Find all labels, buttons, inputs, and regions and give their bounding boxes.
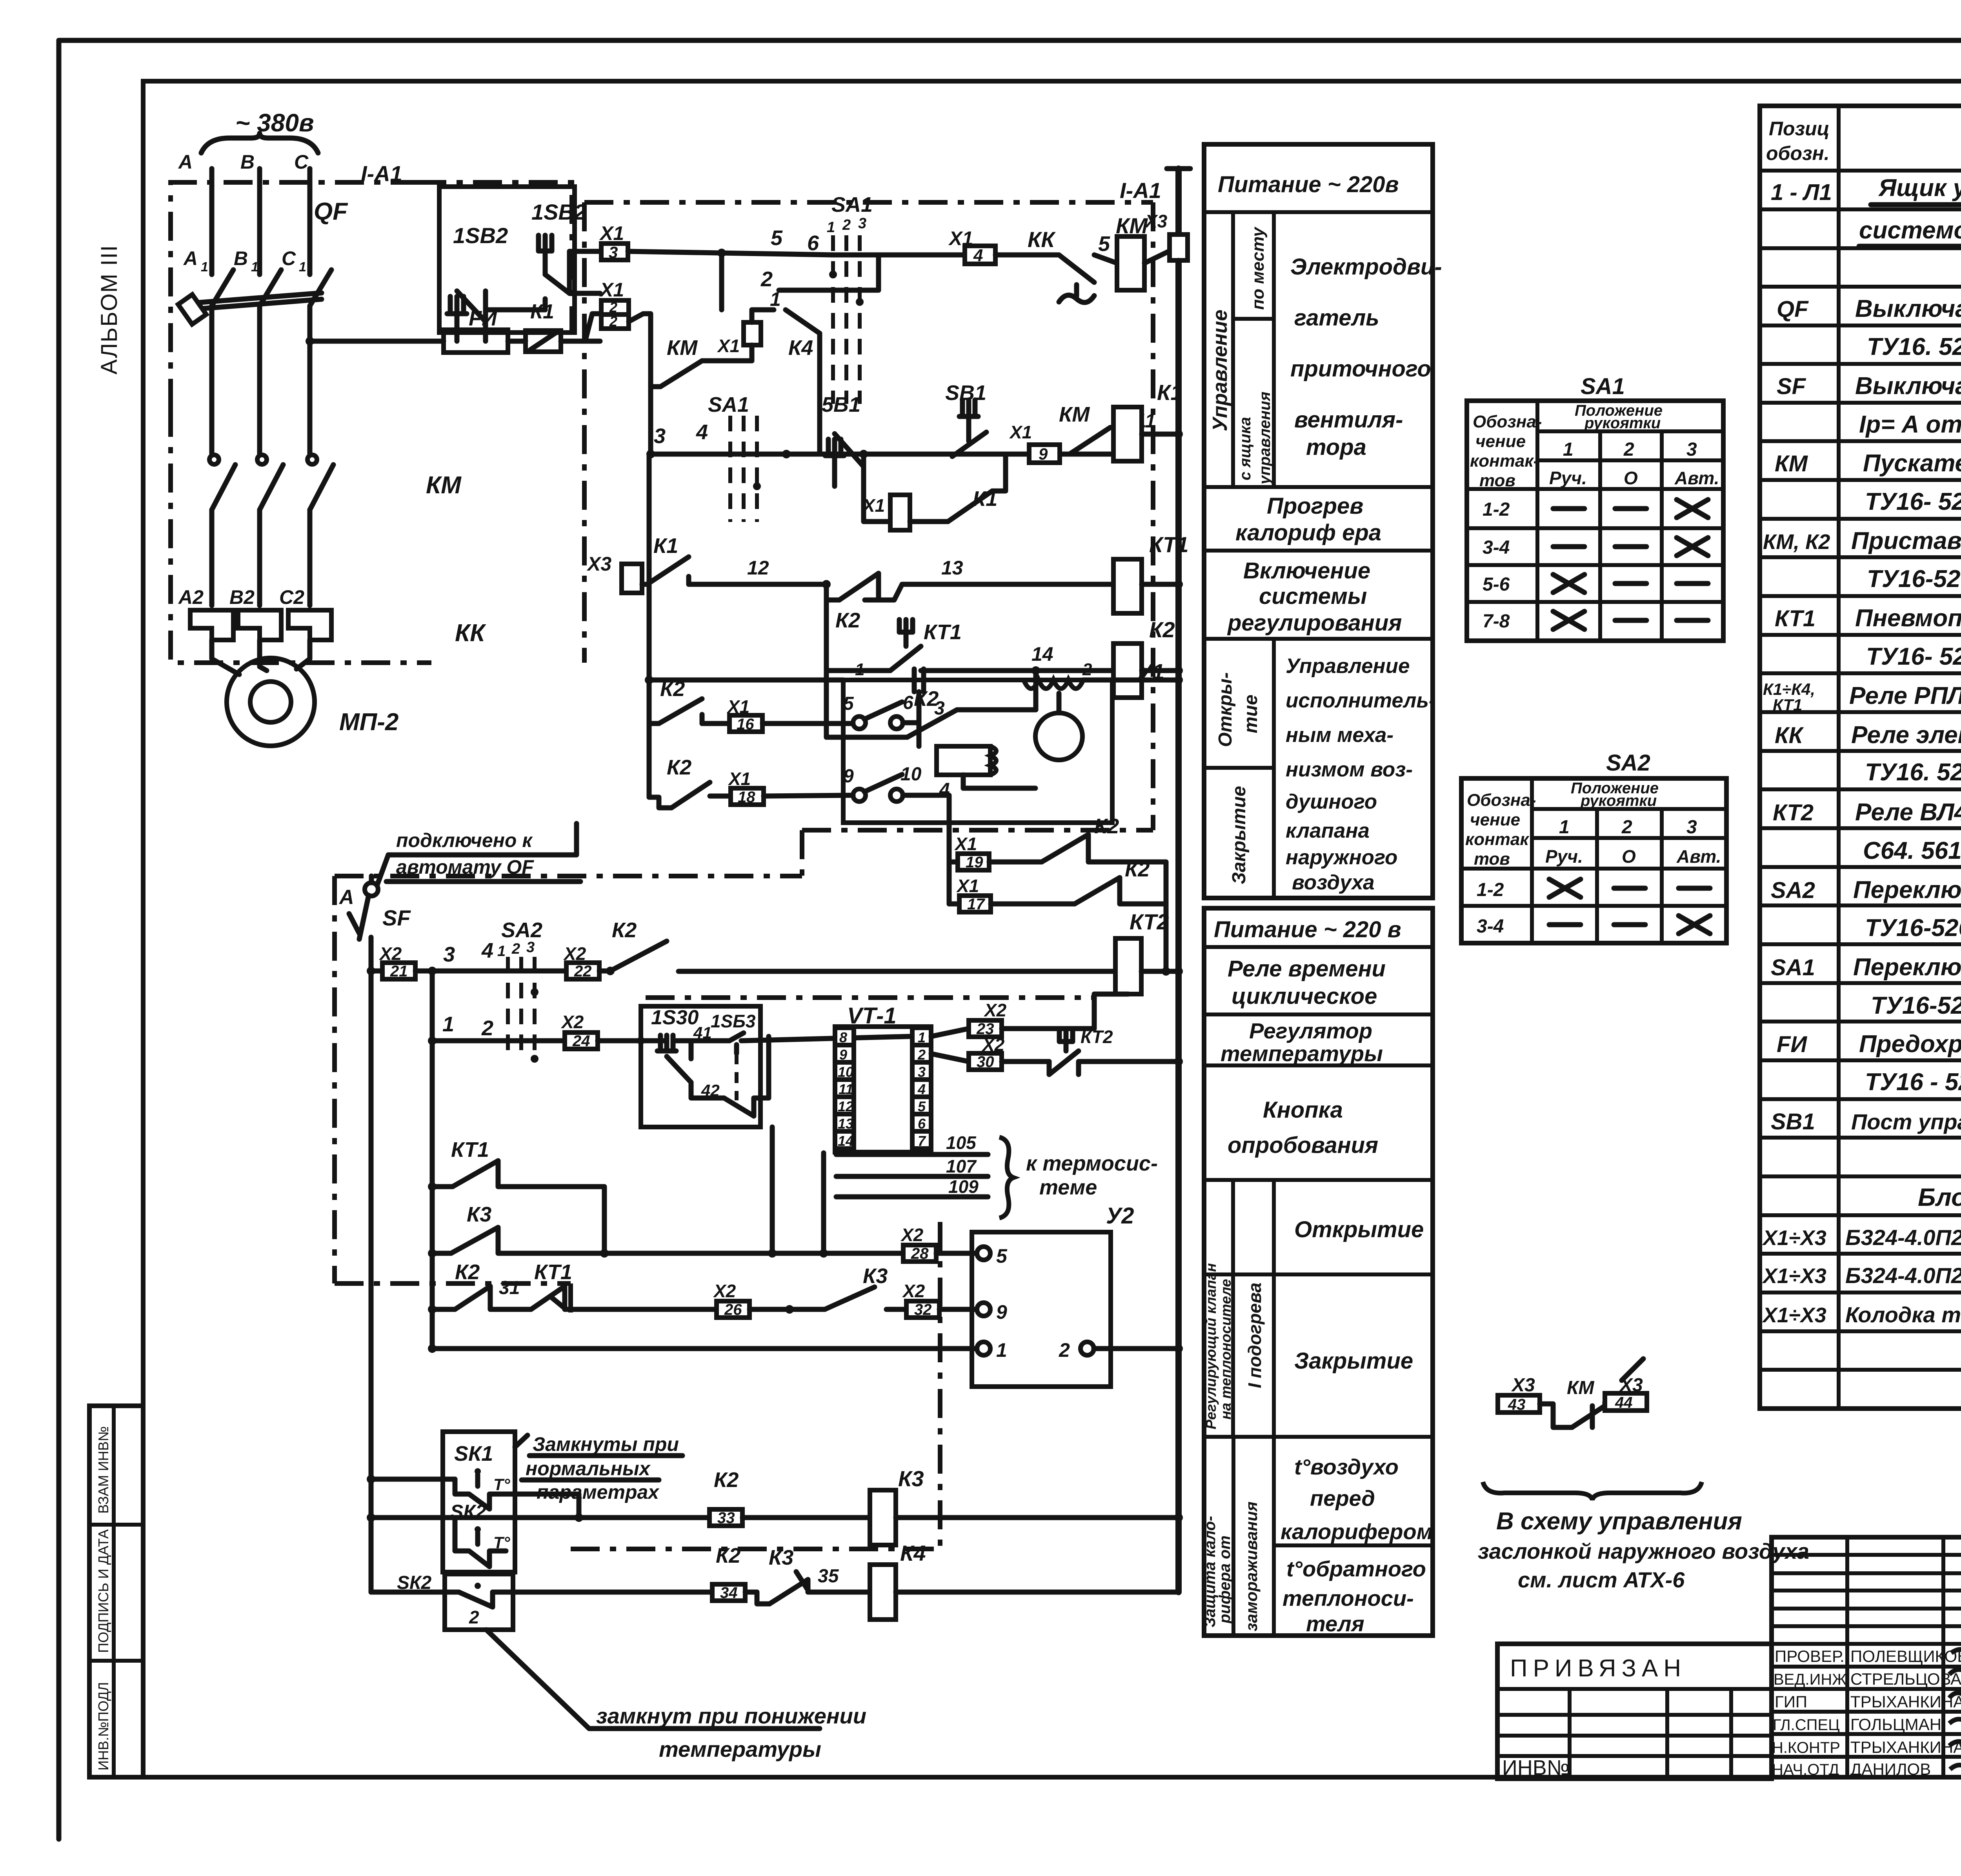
node B2 (229, 586, 255, 608)
note closed at normal (515, 1433, 682, 1503)
svg-text:КМ: КМ (667, 336, 698, 360)
contact KT1 aux rung (428, 1138, 604, 1253)
svg-text:нормальных: нормальных (526, 1458, 651, 1480)
svg-text:9: 9 (843, 766, 854, 787)
terminal X2:22 (563, 943, 615, 980)
node A1 (183, 247, 208, 274)
svg-text:Х1÷Х3: Х1÷Х3 (1762, 1264, 1826, 1288)
svg-text:циклическое: циклическое (1232, 983, 1377, 1009)
svg-text:ТУ16 - 522.112 - 74: ТУ16 - 522.112 - 74 (1865, 1069, 1961, 1096)
svg-text:14: 14 (838, 1133, 853, 1149)
svg-text:НАЧ.ОТД: НАЧ.ОТД (1772, 1761, 1839, 1778)
gearbox inside Y1 (919, 692, 1035, 788)
svg-text:теплоноси-: теплоноси- (1282, 1586, 1414, 1611)
svg-text:вентиля-: вентиля- (1294, 407, 1403, 433)
button 1SB2 stop (447, 223, 508, 341)
svg-text:А2: А2 (178, 586, 204, 608)
svg-text:С64. 561. 062ТО: С64. 561. 062ТО (1863, 837, 1961, 864)
switch SA1 contact 1-2 (760, 193, 965, 404)
svg-text:Х2: Х2 (560, 1012, 584, 1032)
svg-text:Б324-4.0П25-В/В УЗ-5 ТУ16- 5: Б324-4.0П25-В/В УЗ-5 ТУ16- 526. 462-79 (1845, 1225, 1961, 1250)
svg-text:КМ: КМ (1775, 451, 1808, 476)
node B phase label (240, 151, 255, 173)
svg-text:SА1: SА1 (1771, 955, 1815, 980)
timer coil KT1 (1113, 532, 1188, 613)
svg-text:КТ2: КТ2 (1130, 909, 1169, 934)
svg-text:Х1: Х1 (956, 876, 979, 896)
svg-text:4: 4 (696, 420, 708, 444)
svg-text:26: 26 (724, 1301, 742, 1318)
svg-text:SА2: SА2 (501, 918, 542, 942)
svg-text:22: 22 (574, 963, 592, 980)
svg-text:3: 3 (934, 698, 945, 719)
svg-text:Прогрев: Прогрев (1267, 493, 1363, 519)
svg-text:Х1: Х1 (954, 834, 977, 854)
wire Y1 supply top (645, 454, 843, 797)
svg-text:32: 32 (914, 1301, 932, 1318)
svg-text:28: 28 (911, 1245, 929, 1262)
svg-text:Управление: Управление (1286, 654, 1410, 678)
svg-text:К2: К2 (1125, 858, 1150, 881)
contact K2 34 K3 35 rung (712, 1544, 870, 1604)
net ~380v label (201, 109, 318, 153)
contact K2 33 heat rung (371, 1468, 870, 1527)
svg-text:гатель: гатель (1294, 305, 1379, 331)
node C2 (279, 586, 304, 608)
svg-text:ТУ16-526.437-78: ТУ16-526.437-78 (1867, 565, 1961, 593)
wire phase A drop (209, 169, 215, 274)
svg-text:1: 1 (827, 219, 835, 236)
svg-text:33: 33 (717, 1509, 735, 1527)
svg-text:ДАНИЛОВ: ДАНИЛОВ (1850, 1760, 1931, 1778)
svg-text:КТ1: КТ1 (924, 620, 962, 644)
svg-text:1: 1 (442, 1013, 454, 1036)
wire bypass via X1:6 K4 (629, 253, 820, 454)
svg-text:12: 12 (747, 557, 769, 579)
svg-text:на теплоносителе: на теплоносителе (1218, 1279, 1234, 1420)
svg-text:Х1: Х1 (862, 495, 885, 516)
svg-text:КТ1: КТ1 (451, 1138, 489, 1162)
supply bus right (1167, 169, 1190, 1349)
svg-text:К4: К4 (788, 336, 813, 360)
svg-text:2: 2 (1059, 1339, 1070, 1361)
local box 1S30 (641, 1006, 760, 1127)
svg-text:душного: душного (1286, 790, 1377, 813)
reference box PRIVYAZAN (1497, 1644, 1772, 1780)
wire rung 1-2 test (428, 971, 565, 1349)
wires thermo outputs 105 107 109 (836, 1133, 1158, 1218)
svg-text:Питание ~ 220 в: Питание ~ 220 в (1214, 917, 1401, 942)
svg-text:замораживания: замораживания (1242, 1502, 1261, 1631)
connector VT-1 (835, 1003, 931, 1152)
svg-text:К2: К2 (667, 756, 691, 779)
svg-text:исполнитель-: исполнитель- (1286, 689, 1436, 712)
wire phases lower (212, 510, 310, 605)
svg-text:К3: К3 (898, 1466, 924, 1491)
svg-text:Х1÷Х3: Х1÷Х3 (1762, 1303, 1826, 1327)
svg-text:1 - Л1: 1 - Л1 (1771, 180, 1832, 205)
svg-text:6: 6 (807, 231, 819, 255)
svg-text:1: 1 (497, 943, 506, 960)
svg-text:SА2: SА2 (1606, 750, 1650, 776)
svg-text:Замкнуты при: Замкнуты при (533, 1433, 679, 1455)
svg-text:7: 7 (918, 1133, 926, 1149)
svg-text:21: 21 (390, 963, 408, 980)
svg-text:К3: К3 (467, 1203, 491, 1226)
svg-text:109: 109 (948, 1176, 979, 1197)
svg-text:КМ, К2: КМ, К2 (1763, 530, 1830, 554)
contactor coil KM (1116, 213, 1170, 290)
svg-text:Переключатель ПКУЗ-12С-УЗ Схем: Переключатель ПКУЗ-12С-УЗ Схема 2001 (1853, 954, 1961, 981)
svg-text:КМ: КМ (1567, 1378, 1595, 1398)
svg-text:Кнопка: Кнопка (1263, 1097, 1343, 1123)
svg-text:В схему управления: В схему управления (1496, 1508, 1742, 1535)
svg-text:с ящика: с ящика (1237, 417, 1254, 480)
contact Y1 5-6 (843, 693, 945, 746)
svg-text:калорифером: калорифером (1281, 1519, 1433, 1544)
svg-text:ТУ16- 526- 437-78: ТУ16- 526- 437-78 (1865, 488, 1961, 515)
svg-text:1: 1 (251, 260, 258, 274)
svg-text:А: А (338, 886, 354, 909)
contact K2 timer feed (610, 918, 1115, 971)
svg-text:1: 1 (299, 260, 306, 274)
svg-text:перед: перед (1310, 1486, 1375, 1511)
svg-text:ВЕД.ИНЖ: ВЕД.ИНЖ (1774, 1671, 1846, 1688)
svg-text:приточного: приточного (1290, 356, 1431, 382)
node B1 (234, 247, 258, 274)
svg-text:3: 3 (443, 943, 455, 966)
svg-text:К3: К3 (863, 1264, 888, 1288)
terminal X2:21 (371, 939, 508, 980)
svg-text:ТРЫХАНКИНА: ТРЫХАНКИНА (1850, 1738, 1961, 1756)
svg-text:КТ1: КТ1 (534, 1260, 572, 1284)
svg-text:Включение: Включение (1243, 558, 1370, 584)
svg-text:Реле ВЛ40-ТУ4 ~220в вв 10÷: Реле ВЛ40-ТУ4 ~220в вв 10÷100с (1855, 799, 1961, 826)
svg-text:SА1: SА1 (708, 393, 749, 416)
terminal X2:23 (931, 994, 1128, 1038)
svg-text:t°обратного: t°обратного (1286, 1556, 1426, 1581)
svg-text:5В1: 5В1 (822, 393, 860, 416)
svg-text:1SВ2: 1SВ2 (531, 200, 586, 224)
svg-text:35: 35 (818, 1566, 839, 1587)
svg-text:низмом воз-: низмом воз- (1286, 758, 1413, 781)
svg-text:системой П-1 (ЯОН5101-2277УХЛ4: системой П-1 (ЯОН5101-2277УХЛ4) (1859, 217, 1961, 244)
svg-text:тие: тие (1241, 694, 1261, 733)
svg-text:ПРОВЕР.: ПРОВЕР. (1775, 1647, 1845, 1665)
svg-text:С2: С2 (279, 586, 304, 608)
terminal X2:32 (902, 1281, 977, 1318)
svg-text:тора: тора (1306, 434, 1366, 460)
contact K3 aux rung open (428, 1127, 903, 1258)
button 5B1 stop (782, 393, 868, 486)
wire limit rung X1:17 (949, 858, 1170, 976)
svg-text:С: С (294, 151, 309, 173)
svg-text:В: В (240, 151, 255, 173)
svg-text:24: 24 (572, 1033, 590, 1050)
timer coil KT2 (1115, 909, 1183, 994)
svg-text:6: 6 (903, 693, 913, 713)
svg-text:опробования: опробования (1228, 1133, 1378, 1158)
svg-text:ПОЛЕВЩИКОВ: ПОЛЕВЩИКОВ (1850, 1647, 1961, 1665)
svg-text:управления: управления (1256, 392, 1273, 485)
svg-text:Авт.: Авт. (1676, 846, 1721, 867)
capacitor C inside Y1 (914, 669, 924, 692)
svg-text:2: 2 (760, 267, 773, 291)
svg-text:ПРИВЯЗАН: ПРИВЯЗАН (1510, 1655, 1686, 1682)
svg-text:SА1: SА1 (1581, 374, 1625, 399)
svg-text:3-4: 3-4 (1477, 916, 1504, 937)
svg-text:Предохранитель ПРС- 6УЗ-П Iпл.: Предохранитель ПРС- 6УЗ-П Iпл.вст. 4А (1859, 1031, 1961, 1058)
svg-text:КМ: КМ (426, 472, 462, 499)
svg-text:14: 14 (1031, 643, 1053, 665)
svg-text:2: 2 (481, 1016, 493, 1040)
svg-text:Х1: Х1 (717, 336, 740, 356)
svg-text:по месту: по месту (1248, 226, 1268, 310)
wire bus SF lower (367, 967, 375, 1592)
contact K2 selfhold (826, 671, 1036, 737)
terminal X3:4 (1144, 211, 1188, 274)
svg-text:I-А1: I-А1 (361, 161, 402, 186)
svg-text:19: 19 (966, 854, 983, 871)
svg-text:С: С (282, 247, 296, 269)
svg-text:Откры-: Откры- (1215, 672, 1236, 747)
svg-text:Реле времени: Реле времени (1228, 956, 1386, 982)
svg-text:SК1: SК1 (454, 1442, 493, 1465)
node I-A1 label (361, 161, 402, 186)
svg-text:Пускатель ПМЛ210004 ~220в: Пускатель ПМЛ210004 ~220в (1863, 450, 1961, 477)
svg-text:ПОДПИСЬ И ДАТА: ПОДПИСЬ И ДАТА (95, 1529, 111, 1653)
svg-text:QF: QF (1777, 296, 1809, 322)
dashdot boundary lower left (335, 876, 1094, 1549)
svg-text:К2: К2 (835, 609, 860, 632)
svg-text:Управление: Управление (1209, 310, 1232, 431)
wire rung D regulator (826, 584, 1113, 675)
switch SA1 contact 3-4 (708, 393, 761, 522)
svg-text:Руч.: Руч. (1545, 846, 1583, 867)
svg-text:КТ1: КТ1 (1773, 696, 1802, 714)
svg-text:чение: чение (1470, 810, 1520, 829)
wire phase C drop (307, 169, 313, 274)
svg-text:КК: КК (1775, 723, 1804, 748)
svg-text:2: 2 (469, 1607, 479, 1627)
svg-text:4: 4 (481, 939, 493, 962)
svg-text:9: 9 (1039, 445, 1048, 463)
local control box 1SB2 (439, 187, 575, 333)
svg-text:КК: КК (455, 620, 486, 647)
svg-text:Питание ~ 220в: Питание ~ 220в (1218, 172, 1399, 197)
actuator box Y1 (843, 659, 1164, 823)
svg-text:5-6: 5-6 (1483, 574, 1510, 595)
svg-text:рукоятки: рукоятки (1580, 792, 1657, 809)
svg-text:SF: SF (382, 905, 411, 930)
svg-text:1: 1 (996, 1339, 1007, 1361)
svg-text:1-2: 1-2 (1483, 499, 1510, 520)
relay coil K3 (870, 1349, 1183, 1592)
svg-text:ТУ16-526.047.74: ТУ16-526.047.74 (1871, 992, 1961, 1019)
svg-text:У2: У2 (1106, 1203, 1134, 1229)
svg-text:1: 1 (855, 660, 864, 679)
sensor box SK2 low temp (371, 1572, 712, 1630)
svg-text:2: 2 (609, 313, 617, 329)
wire rung C heater (586, 534, 1113, 632)
svg-text:Открытие: Открытие (1294, 1217, 1424, 1242)
svg-text:1-2: 1-2 (1477, 880, 1504, 900)
svg-text:КТ2: КТ2 (1081, 1027, 1113, 1047)
wire rung close K2 31 KT1 (428, 1260, 717, 1314)
switch SA2 contact 1-2 (497, 918, 566, 1063)
svg-text:1SБ3: 1SБ3 (711, 1011, 756, 1031)
node C phase label (294, 151, 309, 173)
svg-text:5: 5 (1098, 232, 1110, 256)
thermal relay KK heaters (190, 610, 486, 647)
switch SF (338, 876, 411, 971)
svg-text:ИНВ№: ИНВ№ (1502, 1756, 1570, 1780)
svg-text:автомату QF: автомату QF (396, 856, 534, 878)
svg-text:СТРЕЛЬЦОВА: СТРЕЛЬЦОВА (1850, 1670, 1961, 1688)
wire phase B drop (257, 169, 262, 274)
svg-text:43: 43 (1508, 1396, 1526, 1413)
svg-text:параметрах: параметрах (537, 1481, 660, 1503)
svg-text:Б324-4.0П25-В/ВУЗ-10 ТУ16 -526: Б324-4.0П25-В/ВУЗ-10 ТУ16 -526. 463 -79 (1845, 1263, 1961, 1288)
svg-text:Х1: Х1 (599, 222, 624, 244)
wire rung A from X1:3 (628, 226, 833, 257)
terminal X2:30 contact KT2 (931, 1027, 1183, 1074)
svg-text:Х3: Х3 (1511, 1375, 1535, 1396)
svg-text:Т°: Т° (493, 1533, 511, 1552)
svg-text:замкнут при понижении: замкнут при понижении (596, 1703, 866, 1728)
note closed at low temp (486, 1630, 866, 1761)
svg-text:МП-2: МП-2 (339, 709, 398, 736)
svg-text:Выключатель А63-МУЗ ~380в: Выключатель А63-МУЗ ~380в (1855, 373, 1961, 400)
svg-text:Ящик управления приточной: Ящик управления приточной (1878, 175, 1961, 202)
svg-text:ТУ16. 522. 054-75: ТУ16. 522. 054-75 (1867, 333, 1961, 360)
svg-text:К2: К2 (1149, 617, 1175, 642)
svg-text:13: 13 (941, 557, 963, 579)
svg-text:КК: КК (1028, 227, 1056, 252)
relay K1 heater element (508, 300, 561, 352)
svg-text:ТУ16- 526. 437-78: ТУ16- 526. 437-78 (1866, 643, 1961, 670)
svg-text:5: 5 (771, 226, 783, 250)
svg-text:SА2: SА2 (1771, 878, 1815, 903)
svg-text:Колодка торцевая КТ5У ТУ16-526: Колодка торцевая КТ5У ТУ16-526. 462-79 (1845, 1302, 1961, 1327)
svg-text:3: 3 (858, 215, 866, 232)
svg-text:3: 3 (1686, 817, 1697, 838)
svg-text:QF: QF (314, 198, 348, 225)
svg-text:5: 5 (843, 693, 854, 714)
svg-text:К1: К1 (1157, 380, 1183, 405)
wire to box (561, 339, 600, 344)
svg-text:31: 31 (499, 1278, 520, 1298)
svg-text:Приставка контактная ПКЛ 2204: Приставка контактная ПКЛ 2204 (1851, 527, 1961, 554)
svg-text:107: 107 (946, 1156, 977, 1176)
svg-text:1SВ2: 1SВ2 (453, 223, 508, 248)
svg-text:3-4: 3-4 (1483, 537, 1510, 558)
svg-text:см. лист АТХ-6: см. лист АТХ-6 (1518, 1567, 1685, 1592)
svg-text:Х2: Х2 (902, 1281, 925, 1301)
svg-text:К2: К2 (612, 918, 637, 942)
svg-text:Н.КОНТР: Н.КОНТР (1772, 1739, 1840, 1756)
svg-text:1: 1 (1559, 817, 1570, 838)
motor inside Y1 (1035, 693, 1082, 760)
svg-text:К1: К1 (653, 534, 678, 558)
svg-text:Обозна-: Обозна- (1467, 791, 1536, 810)
svg-text:17: 17 (967, 896, 985, 913)
svg-text:обозн.: обозн. (1766, 142, 1830, 164)
svg-text:О: О (1624, 468, 1638, 488)
terminal X1:9 (1009, 422, 1060, 463)
svg-text:ТУ16-526.047-74: ТУ16-526.047-74 (1865, 914, 1961, 942)
svg-text:Обозна-: Обозна- (1473, 412, 1542, 431)
svg-text:Электродви-: Электродви- (1290, 254, 1442, 280)
svg-text:КМ: КМ (1059, 403, 1090, 426)
contact KM aux (1059, 403, 1156, 454)
left margin album text (96, 245, 122, 374)
svg-text:ным меха-: ным меха- (1286, 723, 1393, 747)
svg-text:теме: теме (1039, 1176, 1097, 1199)
svg-text:КТ1: КТ1 (1149, 532, 1188, 557)
wire rung B motor control (646, 420, 1113, 458)
svg-text:калориф ера: калориф ера (1235, 520, 1381, 545)
svg-text:I подогрева: I подогрева (1244, 1283, 1265, 1388)
svg-text:9: 9 (996, 1301, 1007, 1323)
svg-text:воздуха: воздуха (1292, 871, 1375, 894)
svg-text:~ 380в: ~ 380в (235, 109, 314, 137)
svg-text:ГОЛЬЦМАН: ГОЛЬЦМАН (1850, 1715, 1941, 1734)
svg-text:рукоятки: рукоятки (1584, 414, 1661, 432)
svg-text:К2: К2 (660, 677, 685, 701)
svg-text:Х2: Х2 (983, 1000, 1007, 1020)
svg-text:к термосис-: к термосис- (1026, 1152, 1158, 1175)
svg-text:регулирования: регулирования (1227, 610, 1402, 636)
svg-text:10: 10 (900, 764, 922, 785)
svg-text:3: 3 (654, 424, 666, 448)
contact 42 aux (691, 1036, 769, 1116)
valve unit Y2 (972, 1203, 1134, 1387)
svg-text:чение: чение (1475, 432, 1526, 451)
svg-text:Пневмоприставка ПВЛ 1104: Пневмоприставка ПВЛ 1104 (1855, 605, 1961, 632)
svg-text:34: 34 (720, 1584, 738, 1602)
svg-text:Реле РПЛ1220х4 ~220в ТУ16-523: Реле РПЛ1220х4 ~220в ТУ16-523.554-78 (1849, 682, 1961, 709)
svg-text:18: 18 (738, 789, 755, 806)
svg-text:2: 2 (1623, 439, 1634, 460)
breaker QF (178, 198, 348, 324)
terminal X1:4 (948, 227, 1046, 265)
svg-text:2: 2 (1082, 660, 1092, 679)
svg-text:30: 30 (977, 1053, 994, 1071)
button SB1 start (945, 381, 986, 456)
enclosure 1-A1 power box (171, 182, 572, 663)
terminal X1:2/2 (575, 279, 629, 341)
svg-text:теля: теля (1306, 1611, 1364, 1636)
svg-text:АЛЬБОМ III: АЛЬБОМ III (96, 245, 122, 374)
svg-text:SА1: SА1 (831, 193, 873, 216)
wire phases mid (212, 306, 310, 455)
svg-text:5: 5 (996, 1245, 1008, 1267)
enclosure I-A1 control dashdot (335, 178, 1161, 876)
svg-text:7-8: 7-8 (1483, 611, 1510, 632)
svg-text:Закрытие: Закрытие (1294, 1348, 1413, 1374)
svg-text:1: 1 (201, 260, 208, 274)
contact K2 close cmd (649, 756, 853, 808)
thermal contact KK (1028, 227, 1117, 302)
svg-text:SF: SF (1777, 374, 1806, 399)
svg-text:Х2: Х2 (900, 1225, 924, 1245)
svg-text:4: 4 (973, 246, 983, 265)
svg-text:тов: тов (1479, 471, 1515, 490)
svg-text:t°воздухо: t°воздухо (1294, 1454, 1399, 1479)
svg-text:2: 2 (511, 941, 520, 957)
relay coil K1 (1113, 380, 1183, 461)
